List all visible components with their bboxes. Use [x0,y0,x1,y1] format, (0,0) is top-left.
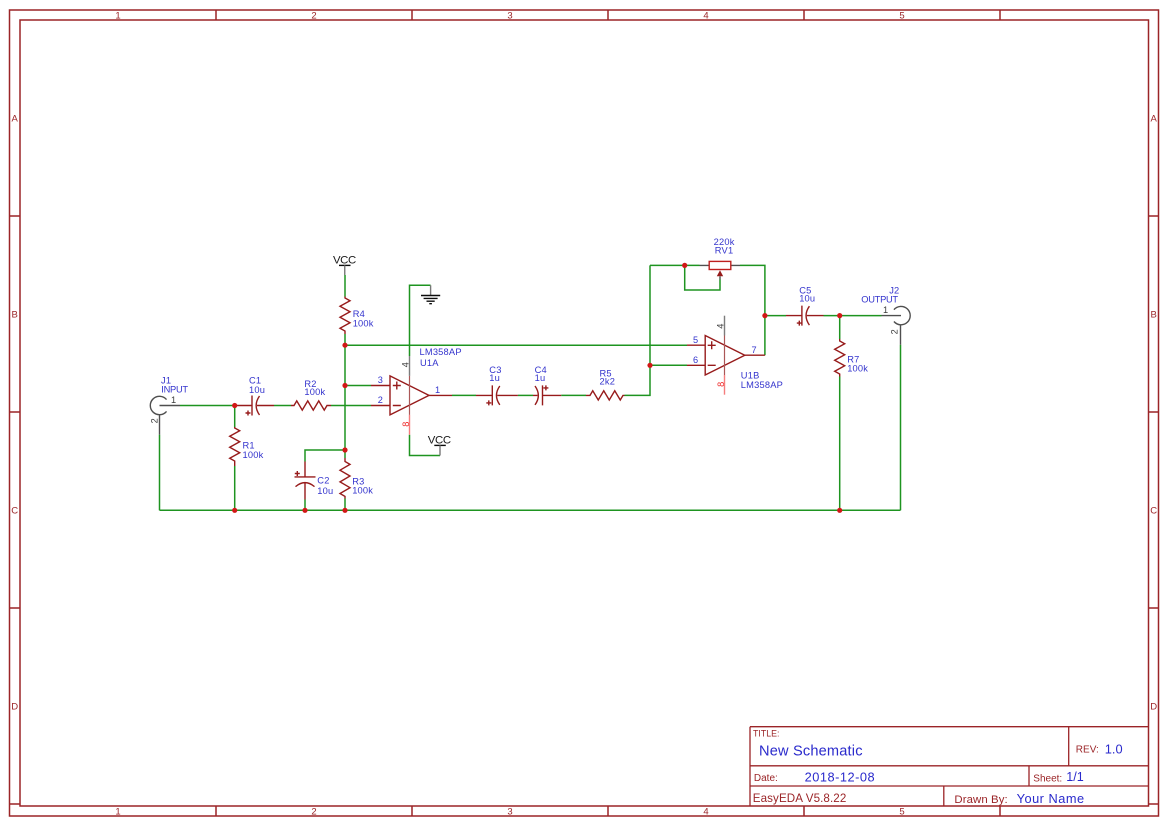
svg-text:RV1: RV1 [715,246,734,256]
wire ground rail [160,509,901,511]
svg-text:5: 5 [899,806,904,817]
svg-text:Drawn By:: Drawn By: [954,794,1007,806]
svg-text:1: 1 [171,395,176,405]
svg-text:U1A: U1A [420,358,439,368]
svg-text:10u: 10u [799,293,815,303]
svg-text:2: 2 [890,329,900,334]
junction node U1A pin3 [342,383,347,388]
resistor R2 100k [291,379,331,410]
capacitor C2 10u [295,462,334,500]
svg-text:B: B [1151,309,1157,320]
wire C4 to R5 [561,394,586,396]
svg-text:C: C [1150,505,1157,516]
column ticks bottom [216,806,1000,816]
svg-text:10u: 10u [317,486,333,496]
junction node R4 bottom [342,343,347,348]
junction node C2/R3 top [342,447,347,452]
junction node U1B pin6 [647,363,652,368]
wire U1A pin4 to ground [410,285,431,356]
junction node C1/R1 [232,403,237,408]
svg-text:B: B [12,309,18,320]
svg-text:4: 4 [716,324,726,329]
wire C1 to R2 [274,405,291,407]
wire out node to C5 [765,315,786,317]
ground symbol (at U1A pin 4) [421,285,440,303]
svg-text:7: 7 [751,345,756,355]
wire R3 bottom to rail [344,499,346,511]
junction rail C2 [302,508,307,513]
junction rail R3 [342,508,347,513]
resistor R7 100k [835,339,869,377]
wire U1A pin8 to VCC [410,435,441,456]
capacitor C1 10u [236,375,274,415]
svg-text:C1: C1 [249,375,261,385]
column numbers bottom [115,806,904,817]
wire RV1 left run [650,264,700,266]
svg-text:D: D [1150,701,1157,712]
svg-text:2: 2 [311,806,316,817]
svg-text:5: 5 [693,335,698,345]
svg-text:8: 8 [401,422,411,427]
wire C5 to J2 pin1 [824,315,882,317]
svg-text:3: 3 [507,806,512,817]
svg-text:VCC: VCC [333,254,356,266]
junction node C5/R7 [837,313,842,318]
svg-text:Sheet:: Sheet: [1033,773,1062,784]
svg-text:1/1: 1/1 [1066,770,1084,784]
wire U1A out to C3 [452,394,476,396]
svg-text:R4: R4 [353,309,365,319]
svg-text:EasyEDA V5.8.22: EasyEDA V5.8.22 [753,792,847,805]
op-amp U1B LM358AP [687,316,783,395]
svg-text:Your Name: Your Name [1017,791,1085,806]
svg-text:A: A [12,113,19,124]
svg-text:REV:: REV: [1076,745,1099,756]
svg-text:1: 1 [115,806,120,817]
svg-text:1u: 1u [489,373,500,383]
capacitor C5 10u [786,285,824,325]
svg-text:New Schematic: New Schematic [759,744,863,760]
column ticks top [216,10,1000,20]
svg-text:1: 1 [435,385,440,395]
svg-text:100k: 100k [353,319,374,329]
junction rail R7 [837,508,842,513]
svg-text:LM358AP: LM358AP [420,347,462,357]
wire R7 bottom to rail [839,377,841,511]
svg-text:4: 4 [703,806,708,817]
wire R4 bottom through pin3 node down to R3 [344,334,346,458]
wire J1 pin2 down [159,435,161,511]
row letters left [11,113,18,712]
junction rail R1 [232,508,237,513]
wire bias node to U1A pin 3 [345,385,371,387]
svg-text:3: 3 [507,10,512,21]
wire node to C2 top [305,450,345,462]
connector J1 INPUT [150,375,189,434]
svg-text:2: 2 [378,395,383,405]
svg-text:6: 6 [693,355,698,365]
svg-text:2: 2 [311,10,316,21]
svg-text:R1: R1 [243,440,255,450]
title block [750,727,1149,807]
svg-text:1: 1 [883,305,888,315]
svg-text:Date:: Date: [754,773,778,784]
op-amp U1A LM358AP [371,347,462,435]
svg-text:100k: 100k [304,387,325,397]
resistor R4 100k [340,297,374,335]
svg-text:4: 4 [401,362,411,367]
wire RV1 right down to U1B out [740,265,765,355]
svg-text:100k: 100k [847,363,868,373]
wire bias node to U1B pin 5 [345,344,687,346]
svg-text:5: 5 [899,10,904,21]
capacitor C4 1u [533,365,561,406]
svg-text:1: 1 [115,10,120,21]
wire R1 bottom to rail [234,466,236,510]
power flag VCC (at U1A pin 8) [428,435,451,456]
svg-text:10u: 10u [249,385,265,395]
svg-text:1.0: 1.0 [1105,741,1123,756]
wire J2 pin2 down [900,345,902,511]
svg-text:A: A [1151,113,1158,124]
svg-text:2018-12-08: 2018-12-08 [805,770,875,785]
svg-text:C: C [11,505,18,516]
svg-text:4: 4 [703,10,708,21]
svg-text:100k: 100k [352,486,373,496]
junction node C5 left [762,313,767,318]
junction node RV1 wiper [682,263,687,268]
wire C3 to C4 [518,394,533,396]
wire RV1 wiper loop [685,265,720,290]
wire R7 top [839,316,841,339]
svg-text:3: 3 [378,375,383,385]
wire R1 top [234,406,236,428]
svg-text:TITLE:: TITLE: [753,729,779,739]
wire C2 bottom to rail [304,500,306,511]
potentiometer RV1 220k [700,237,741,279]
wire J1 pin1 to C1 [180,405,236,407]
svg-text:LM358AP: LM358AP [741,380,783,390]
svg-text:D: D [11,701,18,712]
svg-text:8: 8 [716,382,726,387]
row letters right [1150,113,1157,712]
wire R5 up to RV1 row [625,265,651,395]
svg-text:2k2: 2k2 [600,377,616,387]
svg-text:2: 2 [150,418,160,423]
svg-text:C2: C2 [317,476,329,486]
svg-text:INPUT: INPUT [161,384,188,394]
row ticks right [1149,216,1159,804]
row ticks left [10,216,21,804]
svg-text:1u: 1u [535,373,546,383]
power flag VCC (top, above R4) [333,254,356,275]
wire VCC stub to R4 top [344,275,346,297]
wire node to U1B pin 6 [650,364,687,366]
wire R2 to U1A pin2 [331,405,371,407]
svg-text:OUTPUT: OUTPUT [861,294,898,304]
svg-text:U1B: U1B [741,370,760,380]
resistor R3 100k [340,458,373,499]
resistor R1 100k [230,427,264,466]
column numbers top [115,10,904,21]
resistor R5 2k2 [586,369,625,400]
connector J2 OUTPUT [861,285,910,344]
svg-text:100k: 100k [243,450,264,460]
capacitor C3 1u [476,365,518,406]
